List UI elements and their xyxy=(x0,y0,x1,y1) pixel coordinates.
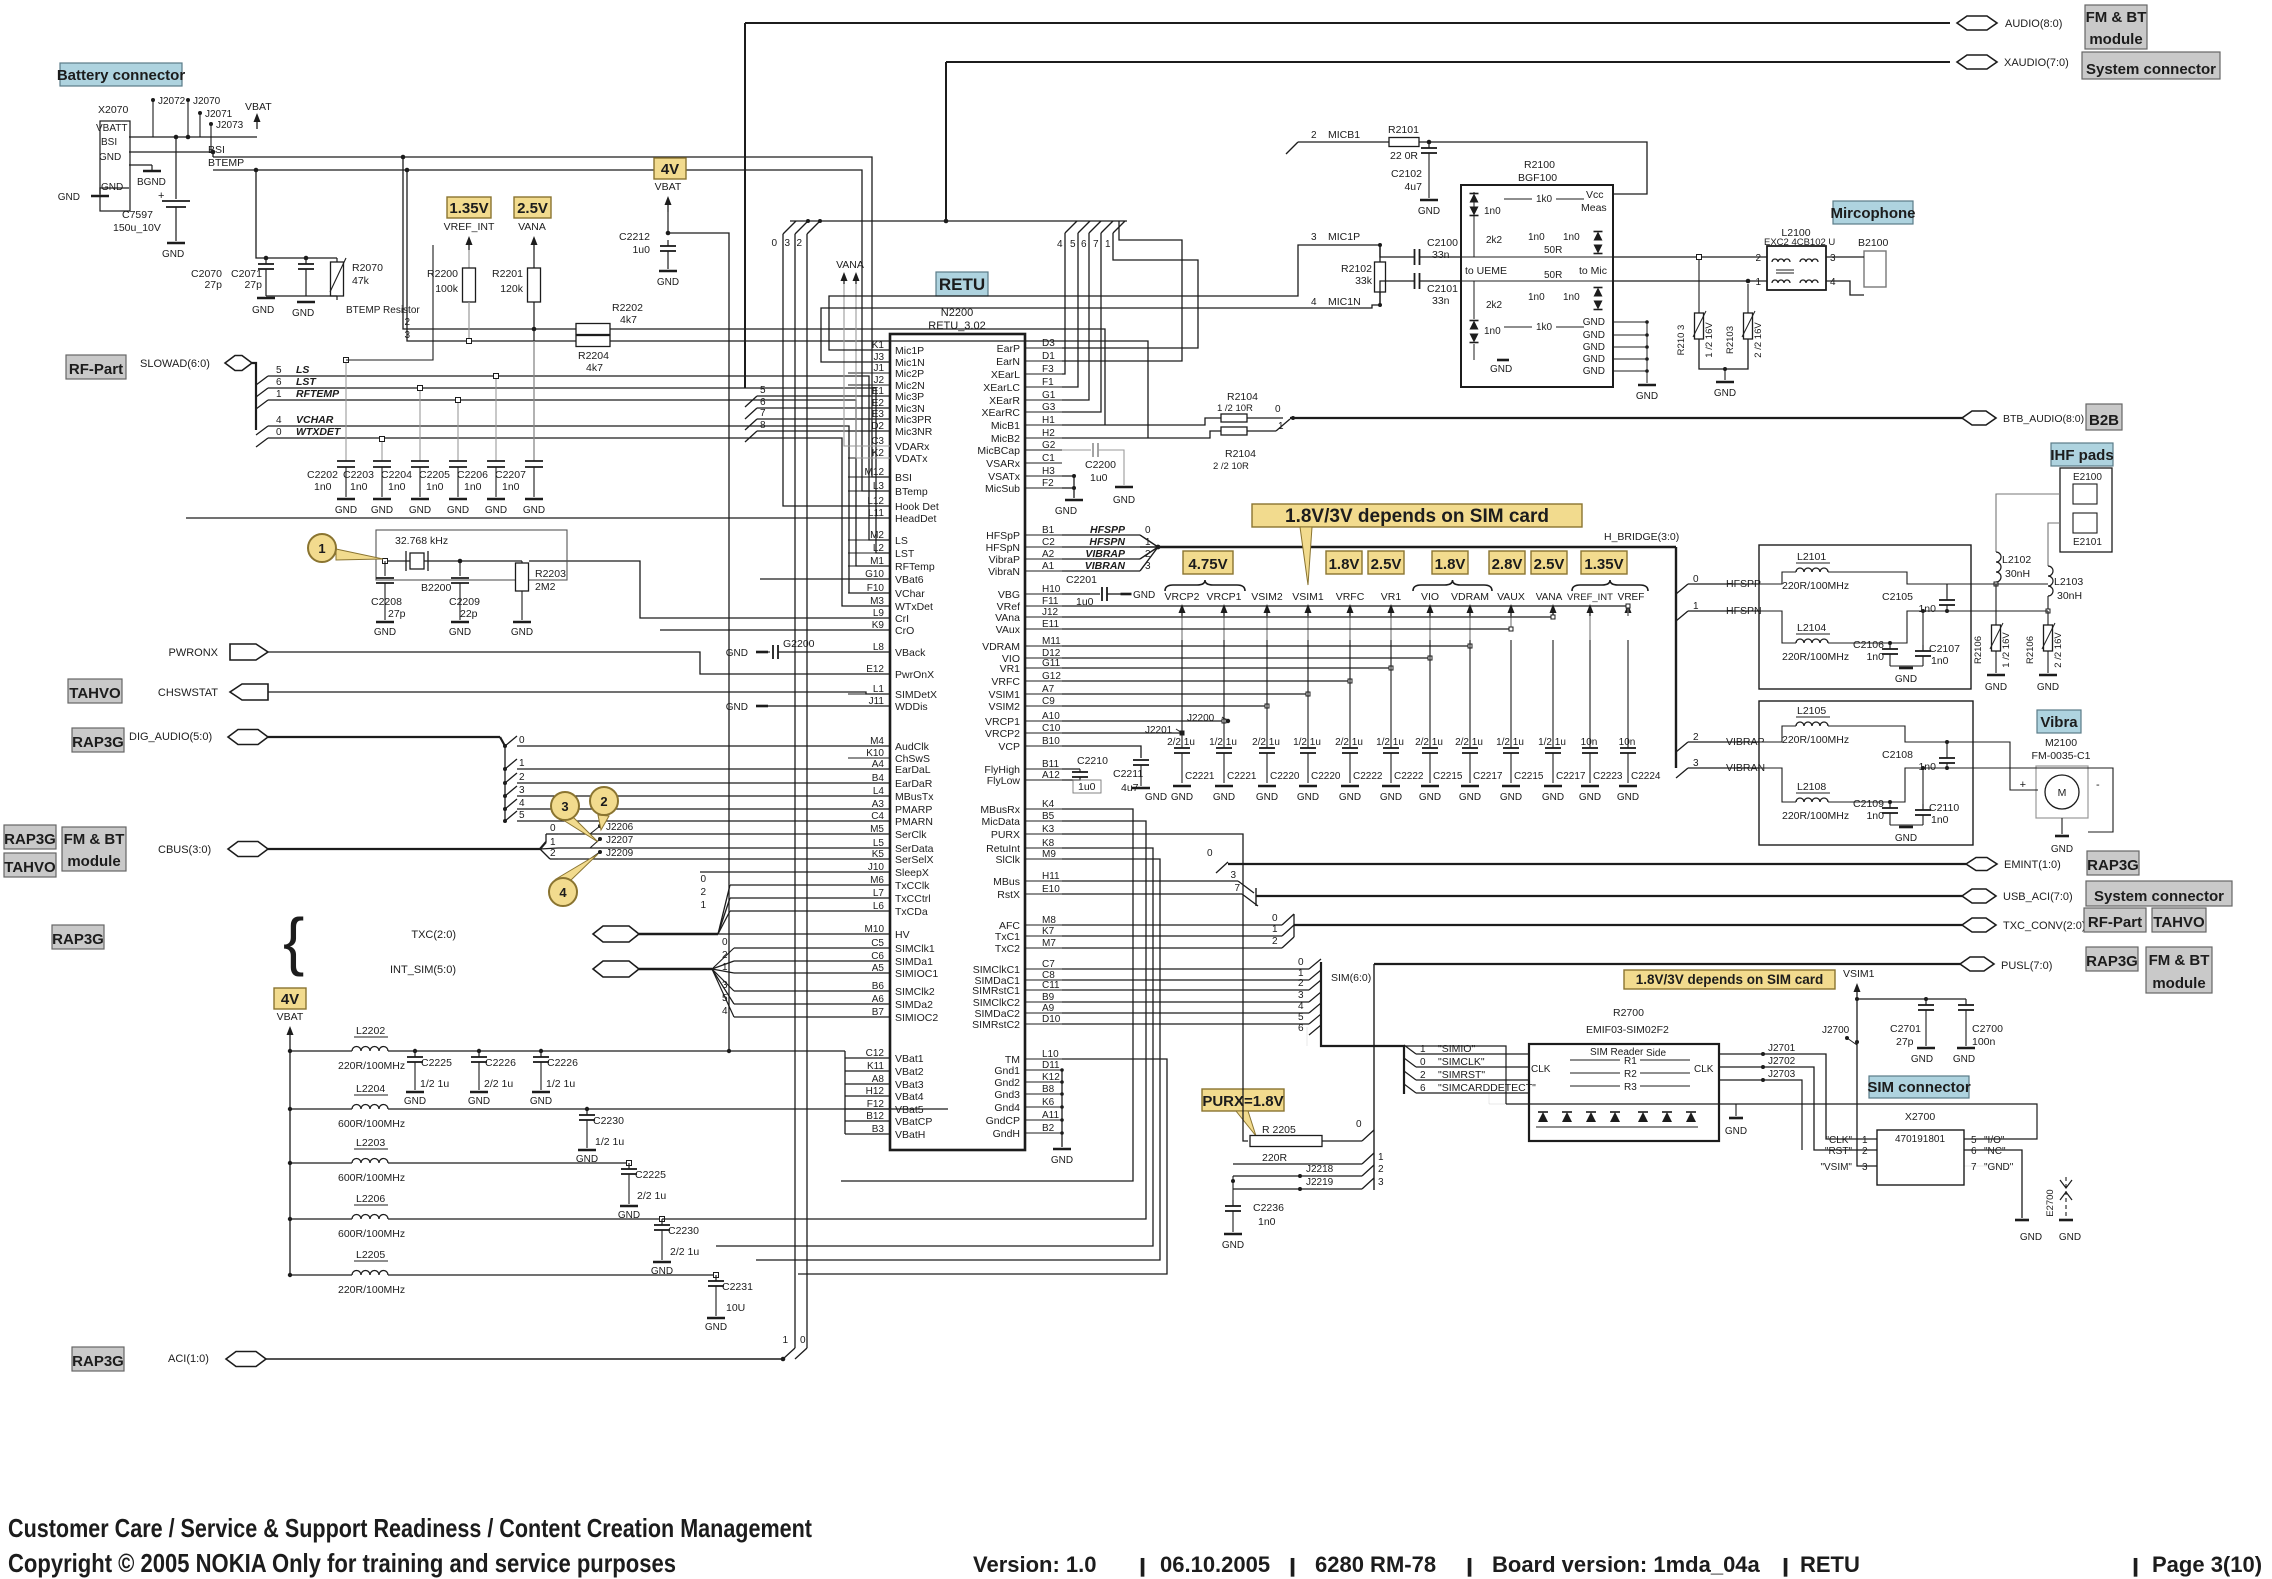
wire MicB2 net xyxy=(1062,431,1221,438)
svg-text:2: 2 xyxy=(1755,253,1761,264)
svg-text:2.5V: 2.5V xyxy=(517,200,548,217)
svg-text:600R/100MHz: 600R/100MHz xyxy=(338,1118,405,1130)
svg-text:B9: B9 xyxy=(1042,992,1055,1003)
svg-text:GND: GND xyxy=(99,152,121,163)
svg-text:0: 0 xyxy=(1275,404,1281,415)
svg-text:C2100: C2100 xyxy=(1427,237,1458,249)
wire BTEMP net xyxy=(213,170,890,491)
svg-text:Vibra: Vibra xyxy=(2040,714,2078,731)
capacitor C2208 xyxy=(384,561,386,576)
wire VBAT vertical xyxy=(289,1040,291,1275)
svg-text:4V: 4V xyxy=(281,991,299,1008)
capacitor C2236 xyxy=(1231,1179,1235,1183)
svg-text:H_BRIDGE(3:0): H_BRIDGE(3:0) xyxy=(1604,531,1679,543)
svg-text:VBatCP: VBatCP xyxy=(895,1116,932,1128)
brace 4.75V xyxy=(1165,580,1245,591)
wire PUSL bus xyxy=(1374,963,1960,965)
svg-text:VChar: VChar xyxy=(895,588,925,600)
svg-text:E11: E11 xyxy=(1042,619,1059,630)
svg-text:A3: A3 xyxy=(872,799,885,810)
wire TXC_CONV bus xyxy=(1294,924,1962,926)
svg-text:B10: B10 xyxy=(1042,736,1060,747)
svg-text:BTEMP Resistor: BTEMP Resistor xyxy=(346,305,420,316)
svg-text:RAP3G: RAP3G xyxy=(52,931,104,948)
svg-text:A6: A6 xyxy=(872,994,885,1005)
capacitor C2209 xyxy=(459,561,461,576)
capacitor C2223 xyxy=(1589,640,1591,748)
svg-text:GND: GND xyxy=(1113,495,1135,506)
svg-text:VAUX: VAUX xyxy=(1497,591,1525,603)
svg-text:1.8V/3V depends on SIM card: 1.8V/3V depends on SIM card xyxy=(1285,506,1549,527)
svg-text:GND: GND xyxy=(511,627,533,638)
svg-text:MBusTx: MBusTx xyxy=(895,791,934,803)
svg-text:5: 5 xyxy=(760,385,766,396)
svg-text:L6: L6 xyxy=(873,901,885,912)
svg-text:1n0: 1n0 xyxy=(1866,651,1884,663)
svg-text:Version: 1.0: Version: 1.0 xyxy=(973,1552,1097,1577)
ACI entries xyxy=(783,1348,795,1359)
resistor R2101 xyxy=(1389,138,1419,147)
svg-text:BTB_AUDIO(8:0): BTB_AUDIO(8:0) xyxy=(2003,413,2084,425)
svg-text:GND: GND xyxy=(1985,682,2007,693)
svg-text:220R/100MHz: 220R/100MHz xyxy=(1782,810,1849,822)
svg-text:+: + xyxy=(158,190,164,202)
svg-text:J2209: J2209 xyxy=(606,848,634,859)
svg-text:GND: GND xyxy=(162,249,184,260)
node PUSL(7:0) xyxy=(1960,957,1994,971)
capacitor C2203 xyxy=(381,439,383,461)
svg-text:GND: GND xyxy=(1579,792,1601,803)
svg-text:C2221: C2221 xyxy=(1185,771,1215,782)
svg-text:27p: 27p xyxy=(1896,1036,1914,1048)
voltage label 2.5V xyxy=(514,197,551,218)
svg-text:GND: GND xyxy=(1222,1240,1244,1251)
svg-text:0: 0 xyxy=(700,874,706,885)
svg-text:A2: A2 xyxy=(1042,549,1055,560)
svg-text:M12: M12 xyxy=(865,467,885,478)
varistor R2106 1 xyxy=(1995,584,1997,625)
wire XAUDIO vertical to rail xyxy=(945,62,947,221)
wire MBusRx staircase xyxy=(841,809,1133,1181)
capacitor C2217 xyxy=(1552,640,1554,748)
capacitor C2222 xyxy=(1390,640,1392,748)
svg-text:D11: D11 xyxy=(1042,1060,1060,1071)
wires J2218 J2219 xyxy=(1233,1175,1362,1177)
resistor R2201 xyxy=(533,250,535,268)
svg-text:SIMIOC2: SIMIOC2 xyxy=(895,1012,938,1024)
svg-text:GND: GND xyxy=(530,1096,552,1107)
capacitor C2101 xyxy=(1414,273,1416,289)
wire EarP net xyxy=(1062,233,1198,348)
junction J2206 xyxy=(598,824,602,828)
wire VBack xyxy=(778,651,890,653)
svg-text:VANA: VANA xyxy=(1536,592,1563,603)
wire SLOWAD bus vertical xyxy=(252,363,256,430)
svg-text:C2101: C2101 xyxy=(1427,283,1458,295)
svg-text:1/2 1u: 1/2 1u xyxy=(595,1136,624,1148)
ground IC Gnd pins comb xyxy=(1061,1070,1063,1147)
wire I O line xyxy=(1506,1104,2037,1139)
svg-text:USB_ACI(7:0): USB_ACI(7:0) xyxy=(2003,891,2073,903)
svg-text:"CLK": "CLK" xyxy=(1825,1135,1852,1146)
svg-text:SIM(6:0): SIM(6:0) xyxy=(1331,972,1371,984)
vibra entries xyxy=(1676,742,1688,752)
svg-text:C7: C7 xyxy=(1042,959,1055,970)
svg-text:B3: B3 xyxy=(872,1124,885,1135)
svg-text:1: 1 xyxy=(1755,277,1761,288)
svg-text:GND: GND xyxy=(705,1322,727,1333)
H-bridge entries xyxy=(1676,583,1690,585)
wire SIMCARDDETECT inside xyxy=(1489,1093,1506,1104)
svg-text:VBat6: VBat6 xyxy=(895,574,924,586)
svg-text:C2211: C2211 xyxy=(1113,768,1143,780)
svg-text:1 /2 16V: 1 /2 16V xyxy=(1704,322,1715,358)
svg-text:GND: GND xyxy=(1051,1155,1073,1166)
svg-text:6: 6 xyxy=(1971,1146,1977,1157)
diodes right bottom xyxy=(1594,288,1603,297)
wire TXC bus xyxy=(639,933,718,935)
svg-text:1u0: 1u0 xyxy=(1090,472,1108,484)
svg-text:MIC1P: MIC1P xyxy=(1328,231,1360,243)
PURX=1.8V callout xyxy=(1202,1089,1284,1111)
svg-text:B8: B8 xyxy=(1042,1084,1055,1095)
svg-text:C2221: C2221 xyxy=(1227,771,1257,782)
svg-text:RETU: RETU xyxy=(939,275,985,294)
svg-text:10U: 10U xyxy=(726,1302,745,1314)
svg-text:to Mic: to Mic xyxy=(1579,265,1607,277)
svg-text:2: 2 xyxy=(550,848,556,859)
svg-text:SIMRstC1: SIMRstC1 xyxy=(972,985,1020,997)
svg-text:EarP: EarP xyxy=(997,343,1020,355)
svg-text:CHSWSTAT: CHSWSTAT xyxy=(158,687,218,699)
wire Mic3 net xyxy=(757,407,890,409)
svg-text:Gnd2: Gnd2 xyxy=(994,1077,1020,1089)
svg-text:0: 0 xyxy=(1356,1119,1362,1130)
voltage label 1.35V xyxy=(447,197,491,218)
svg-text:VRCP1: VRCP1 xyxy=(1206,591,1241,603)
svg-text:Copyright © 2005 NOKIA Only: Copyright © 2005 NOKIA Only for training… xyxy=(8,1548,676,1578)
svg-text:1: 1 xyxy=(1272,924,1278,935)
svg-text:to UEME: to UEME xyxy=(1465,265,1507,277)
svg-text:Mic3NR: Mic3NR xyxy=(895,426,933,438)
svg-text:EarDaL: EarDaL xyxy=(895,764,931,776)
node PWRONX xyxy=(230,644,268,660)
wire CBUS bus xyxy=(268,848,540,850)
inductor L2206 xyxy=(288,1217,292,1221)
svg-text:CLK: CLK xyxy=(1531,1064,1551,1075)
svg-text:2/2 1u: 2/2 1u xyxy=(1167,737,1195,748)
junction J2219 xyxy=(1298,1187,1302,1191)
svg-text:C7597: C7597 xyxy=(122,209,153,221)
capacitor C2215 xyxy=(1510,640,1512,748)
wire VSIM1 caps link xyxy=(1857,998,1966,1000)
wire supply net xyxy=(1062,645,1470,647)
svg-text:C2225: C2225 xyxy=(635,1169,666,1181)
node USB_ACI(7:0) xyxy=(1962,889,1996,903)
svg-text:G10: G10 xyxy=(865,569,884,580)
wire NC pin xyxy=(1964,1150,2022,1218)
svg-text:6: 6 xyxy=(1081,239,1087,250)
svg-text:470191801: 470191801 xyxy=(1895,1134,1945,1145)
svg-text:"NC": "NC" xyxy=(1984,1146,2006,1157)
svg-text:C2231: C2231 xyxy=(722,1281,753,1293)
svg-text:R 2205: R 2205 xyxy=(1262,1124,1296,1136)
wire AFC TxC to TXC_CONV xyxy=(1062,924,1282,926)
wire WDDis xyxy=(768,705,890,707)
svg-text:SLOWAD(6:0): SLOWAD(6:0) xyxy=(140,358,210,370)
svg-text:M9: M9 xyxy=(1042,849,1056,860)
svg-text:J2703: J2703 xyxy=(1768,1069,1796,1080)
svg-text:VSIM2: VSIM2 xyxy=(988,701,1020,713)
wire HV stub xyxy=(639,933,641,935)
svg-text:1n0: 1n0 xyxy=(1918,603,1936,615)
svg-text:GND: GND xyxy=(292,308,314,319)
svg-text:50R: 50R xyxy=(1544,270,1562,281)
capacitor C2205 xyxy=(457,400,459,461)
svg-text:B5: B5 xyxy=(1042,811,1055,822)
svg-text:MicB1: MicB1 xyxy=(991,420,1020,432)
svg-text:3: 3 xyxy=(1862,1162,1868,1173)
svg-text:0: 0 xyxy=(1207,848,1213,859)
svg-text:K6: K6 xyxy=(1042,1097,1055,1108)
node CBUS(3:0) xyxy=(228,842,268,857)
capacitor C2201 xyxy=(1062,593,1100,595)
svg-text:C2222: C2222 xyxy=(1353,771,1383,782)
diodes SIM xyxy=(1538,1112,1548,1122)
wire RFTEMP xyxy=(268,400,890,566)
svg-text:2: 2 xyxy=(1311,130,1317,141)
wire supply net xyxy=(1062,605,1628,607)
svg-text:M2100: M2100 xyxy=(2045,737,2077,749)
svg-text:AUDIO(8:0): AUDIO(8:0) xyxy=(2005,18,2062,30)
svg-text:Customer Care / Service & Supp: Customer Care / Service & Support Readin… xyxy=(8,1513,812,1543)
svg-text:XEarL: XEarL xyxy=(991,369,1020,381)
svg-text:R2: R2 xyxy=(1624,1069,1637,1080)
svg-text:MICB1: MICB1 xyxy=(1328,129,1360,141)
wire MIC1N to C2101 xyxy=(1380,281,1414,305)
svg-text:Mic1P: Mic1P xyxy=(895,345,924,357)
svg-text:L12: L12 xyxy=(867,496,884,507)
svg-text:30nH: 30nH xyxy=(2005,568,2030,580)
svg-text:2: 2 xyxy=(700,887,706,898)
svg-text:GND: GND xyxy=(576,1154,598,1165)
svg-text:VibraN: VibraN xyxy=(988,566,1020,578)
svg-text:TxCCtrl: TxCCtrl xyxy=(895,893,931,905)
voltage label 2.8V xyxy=(1489,551,1525,574)
SIM connector label xyxy=(1869,1076,1969,1098)
svg-text:1.35V: 1.35V xyxy=(1584,556,1623,573)
svg-text:VDRAM: VDRAM xyxy=(982,641,1020,653)
svg-text:E12: E12 xyxy=(866,664,884,675)
svg-text:1n0: 1n0 xyxy=(314,481,332,493)
svg-text:M: M xyxy=(2058,787,2067,799)
svg-text:C2226: C2226 xyxy=(485,1057,516,1069)
svg-text:TAHVO: TAHVO xyxy=(69,685,121,702)
capacitor C2071 xyxy=(305,258,307,264)
capacitor C2225 xyxy=(413,1049,417,1053)
wire E2101 link xyxy=(2048,523,2060,566)
svg-text:BGND: BGND xyxy=(137,177,166,188)
capacitor C2202 xyxy=(345,360,347,461)
SIM reader fan xyxy=(1404,1045,1416,1054)
svg-text:1n0: 1n0 xyxy=(1528,232,1545,243)
svg-text:GND: GND xyxy=(1256,792,1278,803)
svg-text:L2206: L2206 xyxy=(356,1193,385,1205)
wire cluster bottom xyxy=(266,295,337,297)
wire VBat6 stub xyxy=(760,578,890,580)
ground BGND xyxy=(151,165,153,170)
capacitor C2221 xyxy=(1223,640,1225,748)
capacitor C2220 xyxy=(1266,640,1268,748)
svg-text:J2207: J2207 xyxy=(606,835,634,846)
svg-text:3: 3 xyxy=(519,785,525,796)
svg-text:3: 3 xyxy=(561,799,568,814)
wire PWRONX xyxy=(268,652,890,674)
svg-text:4: 4 xyxy=(519,798,525,809)
svg-text:C2200: C2200 xyxy=(1085,459,1116,471)
svg-text:1 /2 10R: 1 /2 10R xyxy=(1217,403,1253,414)
ground C2212 xyxy=(659,270,677,273)
svg-text:R210 3: R210 3 xyxy=(1676,325,1687,356)
wire supply net xyxy=(1062,693,1308,695)
svg-text:RFTEMP: RFTEMP xyxy=(296,388,340,400)
svg-text:Mic3P: Mic3P xyxy=(895,391,924,403)
voltage label 2.5V b xyxy=(1531,551,1567,574)
wire supply net xyxy=(1062,705,1267,707)
ground G2200 stub xyxy=(756,651,768,654)
svg-text:L4: L4 xyxy=(873,786,885,797)
svg-text:4.75V: 4.75V xyxy=(1188,556,1227,573)
svg-text:B12: B12 xyxy=(866,1111,884,1122)
wire MicData staircase xyxy=(662,821,1146,1219)
svg-text:K10: K10 xyxy=(866,748,884,759)
svg-text:MBusRx: MBusRx xyxy=(980,804,1020,816)
svg-text:5: 5 xyxy=(276,365,282,376)
svg-text:HFSPP: HFSPP xyxy=(1090,524,1126,536)
filter block R2100 BGF100 xyxy=(1461,185,1613,387)
svg-text:MicB2: MicB2 xyxy=(991,433,1020,445)
svg-text:E1: E1 xyxy=(872,386,885,397)
resistor R2104 1 xyxy=(1221,414,1247,422)
svg-text:L2101: L2101 xyxy=(1797,551,1826,563)
svg-text:K9: K9 xyxy=(872,620,885,631)
svg-text:GND: GND xyxy=(1583,342,1605,353)
svg-text:L2105: L2105 xyxy=(1797,705,1826,717)
SIM connector X2700 xyxy=(1877,1130,1964,1185)
svg-text:C2201: C2201 xyxy=(1066,574,1097,586)
svg-text:B6: B6 xyxy=(872,981,885,992)
svg-text:22p: 22p xyxy=(460,608,478,620)
svg-text:LST: LST xyxy=(296,376,317,388)
svg-text:H11: H11 xyxy=(1042,871,1060,882)
svg-text:TxC2: TxC2 xyxy=(995,943,1020,955)
svg-text:27p: 27p xyxy=(388,608,406,620)
svg-text:1/2 1u: 1/2 1u xyxy=(1538,737,1566,748)
DIG_AUDIO fan xyxy=(505,736,517,746)
svg-text:1k0: 1k0 xyxy=(1536,194,1553,205)
bus entry 3 xyxy=(795,221,808,234)
svg-text:J2072: J2072 xyxy=(158,96,186,107)
wire vibra N xyxy=(1973,768,2113,832)
svg-text:LS: LS xyxy=(895,535,908,547)
wire VANA to VDATx xyxy=(856,284,890,458)
svg-text:G3: G3 xyxy=(1042,402,1056,413)
svg-text:C10: C10 xyxy=(1042,723,1061,734)
svg-text:TxCDa: TxCDa xyxy=(895,906,928,918)
svg-text:VRCP2: VRCP2 xyxy=(1164,591,1199,603)
svg-text:C2208: C2208 xyxy=(371,596,402,608)
Battery connector label xyxy=(60,63,182,86)
svg-text:C11: C11 xyxy=(1042,980,1060,991)
svg-text:F10: F10 xyxy=(867,583,885,594)
svg-text:module: module xyxy=(2089,31,2142,48)
svg-text:N2200: N2200 xyxy=(941,307,973,319)
svg-text:C2700: C2700 xyxy=(1972,1023,2003,1035)
svg-text:R2070: R2070 xyxy=(352,262,383,274)
svg-text:CrO: CrO xyxy=(895,625,914,637)
ground vibra xyxy=(2061,818,2063,834)
diodes left top xyxy=(1470,194,1479,203)
svg-text:27p: 27p xyxy=(244,279,262,291)
power VBAT arrow xyxy=(256,117,258,129)
wire MicB1 net xyxy=(1062,418,1221,425)
wire L2206 row xyxy=(388,1218,662,1220)
RF-Part label xyxy=(66,355,126,379)
svg-text:H3: H3 xyxy=(1042,466,1055,477)
svg-text:2.5V: 2.5V xyxy=(1371,556,1402,573)
varistor R2103 1 xyxy=(1698,260,1700,313)
brace 1.8V xyxy=(1413,580,1492,591)
svg-text:GND: GND xyxy=(1459,792,1481,803)
svg-text:J12: J12 xyxy=(1042,607,1059,618)
svg-text:HFSPN: HFSPN xyxy=(1089,536,1125,548)
voltage label 4V top xyxy=(654,158,686,179)
wire VSIM1 net xyxy=(1857,997,1877,1166)
wire L2205 row xyxy=(388,1274,716,1276)
svg-text:MicSub: MicSub xyxy=(985,483,1020,495)
svg-text:M6: M6 xyxy=(870,875,884,886)
wire VBat comb xyxy=(844,1051,846,1134)
svg-text:GND: GND xyxy=(523,505,545,516)
svg-text:VIBRAP: VIBRAP xyxy=(1085,548,1126,560)
resistor R2200 xyxy=(468,250,470,268)
crystal circuit box xyxy=(376,530,567,580)
bus entry 0 xyxy=(783,221,796,234)
svg-text:GND: GND xyxy=(1895,833,1917,844)
svg-text:VBAT: VBAT xyxy=(277,1011,304,1023)
svg-text:MBus: MBus xyxy=(993,876,1020,888)
svg-text:600R/100MHz: 600R/100MHz xyxy=(338,1172,405,1184)
svg-text:MicBCap: MicBCap xyxy=(977,445,1020,457)
wire DIG_AUDIO bus xyxy=(268,736,500,738)
svg-text:1.8V: 1.8V xyxy=(1329,556,1360,573)
svg-text:C2209: C2209 xyxy=(449,596,480,608)
svg-text:2 /2 16V: 2 /2 16V xyxy=(1753,322,1764,358)
svg-text:32.768 kHz: 32.768 kHz xyxy=(395,535,448,547)
svg-text:C2212: C2212 xyxy=(619,231,650,243)
svg-text:{: { xyxy=(283,905,304,977)
inductor L2203 xyxy=(288,1161,292,1165)
capacitor C2210 FlyHigh/FlyLow xyxy=(1062,768,1080,770)
svg-text:C2106: C2106 xyxy=(1853,639,1884,651)
svg-text:GND: GND xyxy=(657,277,679,288)
node DIG_AUDIO(5:0) xyxy=(228,730,268,745)
svg-text:5: 5 xyxy=(519,810,525,821)
ground cluster xyxy=(297,301,315,304)
wire XAUDIO(7:0) bus xyxy=(946,61,1950,63)
SLOWAD fan entries xyxy=(256,376,268,385)
wire R2205 out xyxy=(1322,1140,1362,1142)
